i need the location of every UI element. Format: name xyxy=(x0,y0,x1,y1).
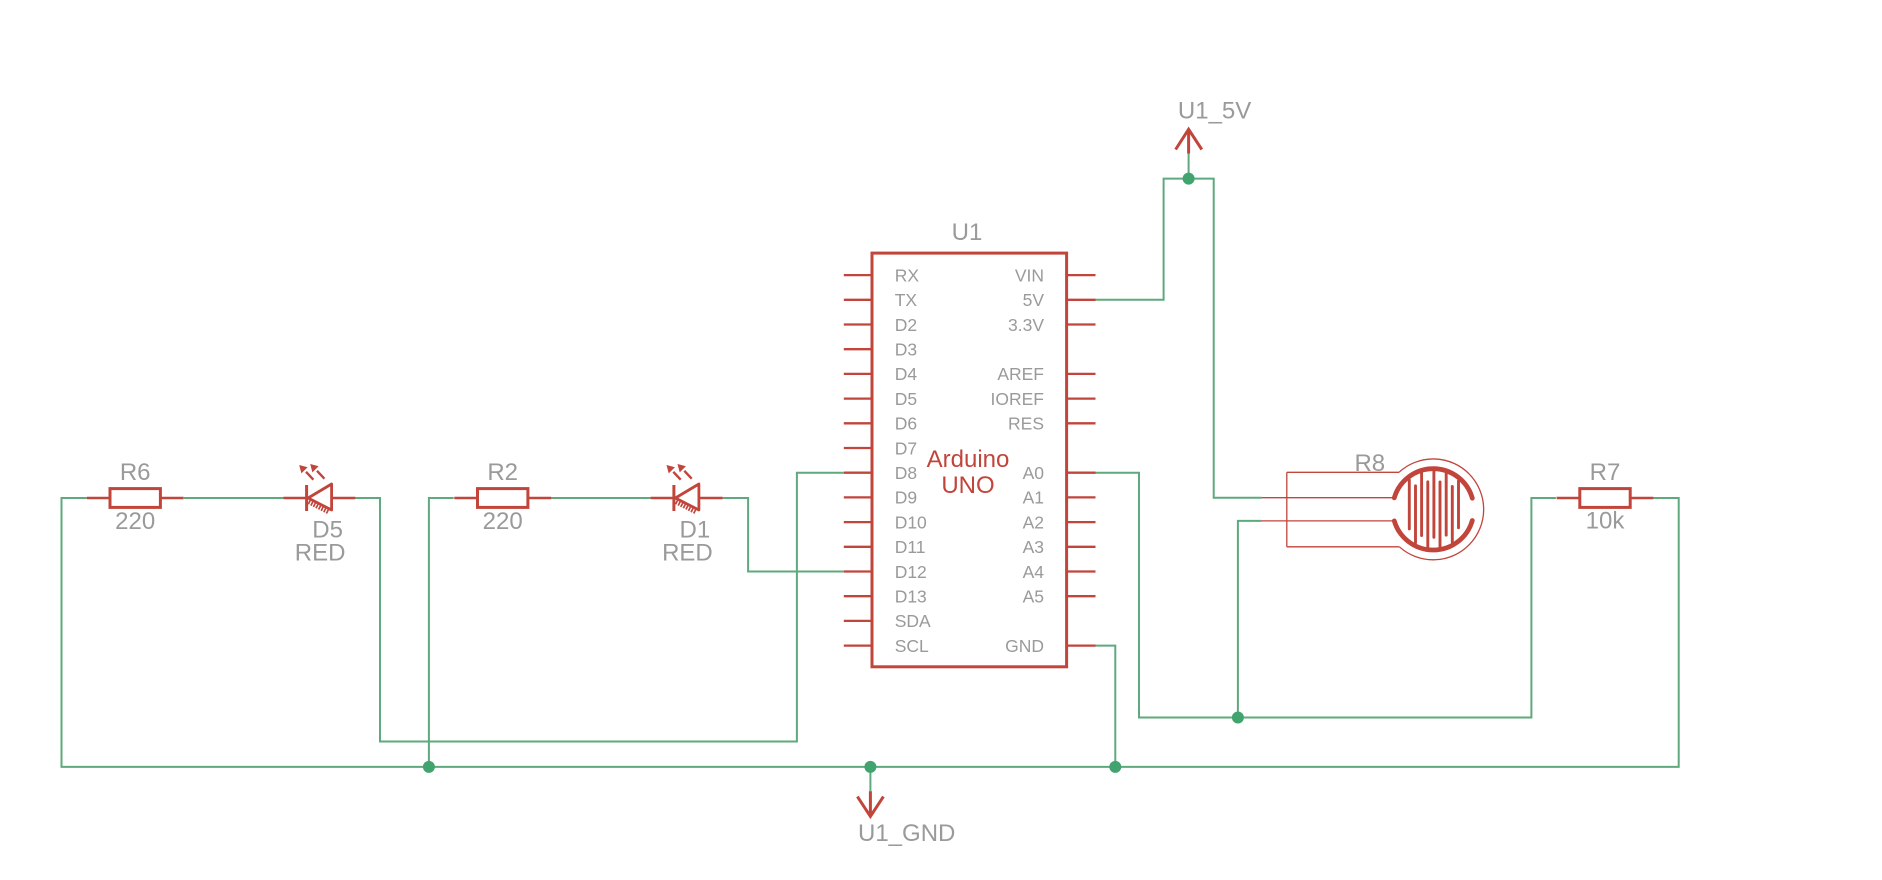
svg-text:R7: R7 xyxy=(1590,459,1621,486)
svg-text:220: 220 xyxy=(115,508,155,535)
svg-text:5V: 5V xyxy=(1023,290,1045,310)
svg-text:SDA: SDA xyxy=(895,611,931,631)
svg-text:D8: D8 xyxy=(895,463,917,483)
svg-text:D7: D7 xyxy=(895,438,917,458)
svg-text:U1_GND: U1_GND xyxy=(858,820,955,847)
svg-text:IOREF: IOREF xyxy=(991,389,1044,409)
svg-text:RX: RX xyxy=(895,265,920,285)
svg-text:A1: A1 xyxy=(1023,488,1044,508)
svg-text:A2: A2 xyxy=(1023,512,1044,532)
svg-text:R8: R8 xyxy=(1354,450,1385,477)
svg-text:A5: A5 xyxy=(1023,587,1044,607)
svg-text:UNO: UNO xyxy=(941,472,994,499)
svg-text:GND: GND xyxy=(1005,636,1044,656)
svg-text:D3: D3 xyxy=(895,340,917,360)
svg-text:10k: 10k xyxy=(1586,508,1626,535)
svg-text:D13: D13 xyxy=(895,587,927,607)
svg-text:A0: A0 xyxy=(1023,463,1045,483)
svg-text:A4: A4 xyxy=(1023,562,1045,582)
svg-text:U1_5V: U1_5V xyxy=(1178,98,1251,125)
svg-text:3.3V: 3.3V xyxy=(1008,315,1044,335)
svg-text:U1: U1 xyxy=(952,219,983,246)
svg-text:VIN: VIN xyxy=(1015,265,1044,285)
svg-text:RED: RED xyxy=(295,540,346,567)
svg-text:Arduino: Arduino xyxy=(927,446,1010,473)
svg-text:R6: R6 xyxy=(120,459,151,486)
svg-text:AREF: AREF xyxy=(997,364,1044,384)
svg-text:D6: D6 xyxy=(895,414,917,434)
svg-text:220: 220 xyxy=(483,508,523,535)
svg-text:R2: R2 xyxy=(487,459,518,486)
svg-text:D11: D11 xyxy=(895,537,926,557)
svg-text:RED: RED xyxy=(662,540,713,567)
svg-text:A3: A3 xyxy=(1023,537,1044,557)
svg-text:SCL: SCL xyxy=(895,636,929,656)
svg-text:D10: D10 xyxy=(895,512,927,532)
svg-text:D4: D4 xyxy=(895,364,918,384)
svg-text:D5: D5 xyxy=(895,389,917,409)
svg-text:D12: D12 xyxy=(895,562,927,582)
svg-text:TX: TX xyxy=(895,290,918,310)
svg-text:D9: D9 xyxy=(895,488,917,508)
svg-text:RES: RES xyxy=(1008,414,1044,434)
svg-text:D2: D2 xyxy=(895,315,917,335)
